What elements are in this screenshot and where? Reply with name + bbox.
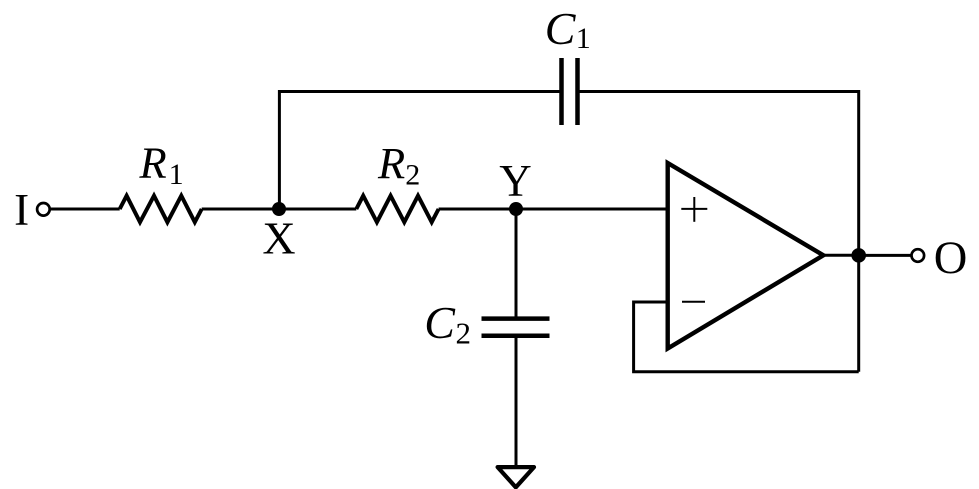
svg-text:1: 1 — [576, 22, 591, 55]
svg-text:2: 2 — [405, 159, 420, 192]
terminal I — [37, 203, 50, 216]
svg-text:O: O — [934, 233, 968, 284]
svg-text:C: C — [545, 3, 577, 54]
capacitor C2 — [482, 319, 550, 336]
wire — [823, 254, 859, 257]
resistor R1 — [120, 196, 202, 223]
wire — [857, 255, 860, 372]
svg-text:I: I — [14, 185, 29, 235]
node Y — [509, 202, 523, 216]
wire — [515, 336, 518, 470]
wire — [579, 92, 859, 256]
wire — [634, 302, 859, 372]
wire — [50, 208, 120, 211]
op-amp minus input marker — [682, 301, 705, 303]
terminal O — [912, 249, 925, 262]
node O junction — [851, 248, 866, 263]
wire — [859, 254, 912, 257]
svg-text:X: X — [262, 212, 295, 263]
ground — [498, 467, 534, 487]
svg-text:2: 2 — [456, 316, 472, 351]
svg-text:Y: Y — [499, 156, 532, 206]
svg-text:C: C — [424, 297, 456, 348]
svg-text:R: R — [377, 138, 405, 188]
wire — [279, 92, 560, 210]
resistor R2 — [356, 196, 438, 223]
capacitor C1 — [562, 58, 578, 125]
node X — [272, 202, 286, 216]
op-amp U1 — [668, 163, 824, 349]
wire — [515, 209, 518, 319]
svg-text:1: 1 — [169, 158, 184, 191]
op-amp plus input marker — [681, 197, 707, 222]
wire — [439, 208, 668, 211]
wire — [202, 208, 357, 211]
svg-text:R: R — [139, 138, 167, 188]
